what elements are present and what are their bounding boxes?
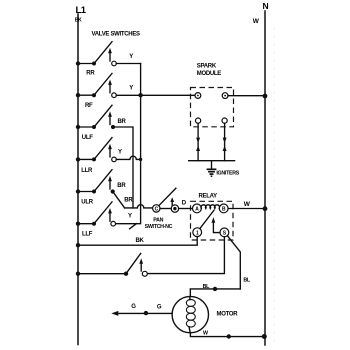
svg-text:RELAY: RELAY (199, 193, 218, 199)
node on N bus (relay W) (263, 206, 268, 211)
wire G (ground lead) with arrow (111, 304, 172, 316)
spark module box (191, 88, 234, 127)
svg-text:SWITCH-NC: SWITCH-NC (145, 224, 173, 230)
igniter common bar (189, 160, 235, 162)
svg-text:MODULE: MODULE (197, 71, 221, 77)
wire BK from relay 1 to L1 bus (76, 237, 197, 248)
spark module labels (197, 64, 221, 78)
svg-text:MOTOR: MOTOR (217, 312, 239, 318)
svg-text:RR: RR (86, 71, 95, 77)
L1 bus wire (77, 14, 79, 345)
relay terminal A (193, 204, 202, 213)
wire Y from LLR with hop over BR (116, 149, 142, 161)
pan switch blade and arrow (159, 188, 176, 206)
valve switch RF (76, 73, 116, 109)
wire C to NO (160, 208, 171, 210)
relay terminal 1 (193, 228, 202, 237)
svg-text:BR: BR (117, 183, 126, 189)
svg-text:BL: BL (203, 284, 211, 290)
PAN SWITCH-NC label (145, 218, 173, 230)
svg-text:Y: Y (128, 214, 132, 220)
svg-text:RF: RF (85, 103, 93, 109)
svg-text:LLF: LLF (82, 232, 93, 238)
wire relay B to N bus (228, 201, 265, 209)
wire Y vertical bus (116, 64, 141, 224)
wire spark module to N bus (228, 95, 265, 97)
igniter ground symbol (207, 161, 217, 177)
wire Y from RF to spark module (116, 86, 195, 98)
wire BR to pan switch with hop over Y bus (124, 198, 152, 208)
svg-text:W: W (244, 201, 251, 208)
svg-text:G: G (157, 304, 162, 310)
crossing tick on LLF wire (130, 224, 137, 229)
svg-text:Y: Y (129, 54, 133, 60)
wire W motor bottom to N bus (190, 331, 266, 339)
door switch (76, 253, 148, 276)
spark module terminal left (195, 93, 201, 99)
pan switch terminal C (153, 205, 160, 213)
node on N bus (spark) (263, 94, 268, 99)
valve switch LLR (76, 138, 116, 174)
svg-text:ULR: ULR (81, 200, 93, 206)
relay box (191, 201, 234, 240)
svg-text:Y: Y (129, 86, 133, 92)
svg-text:IGNITERS: IGNITERS (216, 171, 239, 177)
valve switch ULF (76, 105, 115, 141)
L1 bus label (75, 5, 87, 24)
wire BR from ULR (diagonal) (113, 183, 127, 208)
relay terminal B (219, 204, 228, 213)
svg-text:N: N (263, 1, 269, 11)
igniter lead left with connector arrows (196, 123, 200, 161)
N bus wire (264, 11, 266, 345)
N bus label (253, 1, 269, 25)
faint page fold line (273, 28, 275, 348)
spark module terminal right (222, 93, 228, 99)
svg-text:Y: Y (118, 149, 122, 155)
svg-text:VALVE SWITCHES: VALVE SWITCHES (92, 32, 141, 38)
svg-text:BR: BR (118, 119, 127, 125)
svg-text:1: 1 (196, 230, 199, 236)
svg-text:L1: L1 (76, 5, 87, 16)
svg-text:BL: BL (243, 277, 251, 283)
svg-text:SPARK: SPARK (197, 64, 217, 70)
svg-text:B: B (222, 207, 226, 213)
wire BL from relay S (227, 236, 251, 289)
spark module bottom terminal left (196, 118, 201, 123)
spark module bottom terminal right (222, 118, 227, 123)
valve switch RR (76, 42, 116, 77)
svg-text:PAN: PAN (153, 218, 163, 224)
svg-text:G: G (131, 304, 136, 310)
svg-text:LLR: LLR (81, 168, 93, 174)
svg-text:BR: BR (124, 198, 133, 204)
relay armature (200, 210, 214, 228)
wire BR from ULF (113, 119, 133, 208)
pan switch terminal NO (171, 205, 178, 212)
relay arrow (212, 217, 220, 232)
relay terminal S (220, 228, 229, 237)
svg-text:W: W (253, 18, 260, 25)
wire pan switch to relay A (179, 200, 193, 208)
svg-text:C: C (155, 207, 159, 213)
svg-text:W: W (203, 331, 208, 337)
igniter lead right with connector arrows (223, 123, 227, 161)
wire relay S to door switch (147, 237, 224, 274)
svg-text:BK: BK (136, 238, 145, 244)
valve switch ULR (76, 170, 115, 206)
valve switch LLF (76, 202, 116, 238)
wire BL motor top (190, 284, 240, 297)
motor M1 (172, 296, 238, 332)
svg-text:ULF: ULF (82, 135, 93, 141)
svg-text:A: A (195, 207, 199, 213)
wire Y from RR (116, 54, 140, 64)
relay coil (201, 205, 220, 209)
